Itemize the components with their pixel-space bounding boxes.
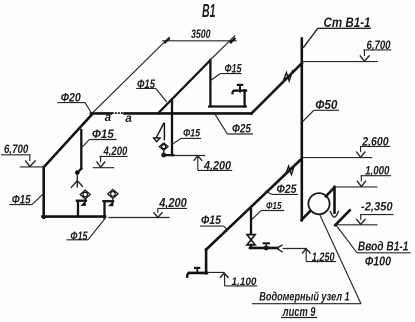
svg-text:Ф25: Ф25 (232, 121, 251, 135)
svg-text:Ф15: Ф15 (92, 127, 114, 141)
svg-text:4,200: 4,200 (203, 159, 231, 173)
svg-text:Ф15: Ф15 (266, 201, 282, 212)
svg-text:Ф100: Ф100 (365, 254, 392, 269)
svg-text:2,600: 2,600 (361, 134, 388, 148)
svg-text:Ввод В1-1: Ввод В1-1 (358, 238, 409, 253)
svg-text:Ф15: Ф15 (183, 128, 201, 140)
svg-text:Ф15: Ф15 (12, 192, 31, 206)
svg-text:4,200: 4,200 (103, 144, 128, 158)
svg-text:4,200: 4,200 (158, 196, 186, 210)
svg-text:В1: В1 (202, 1, 216, 21)
svg-text:Ф25: Ф25 (277, 184, 298, 196)
svg-text:а: а (125, 113, 132, 125)
svg-text:Ф50: Ф50 (315, 98, 337, 112)
svg-text:-2,350: -2,350 (361, 199, 393, 213)
svg-text:6,700: 6,700 (367, 38, 391, 52)
svg-text:3500: 3500 (191, 27, 211, 41)
svg-text:Водомерный узел 1: Водомерный узел 1 (259, 292, 349, 304)
svg-text:Ст В1-1: Ст В1-1 (324, 15, 371, 30)
svg-text:лист 9: лист 9 (282, 304, 316, 319)
svg-text:1,100: 1,100 (232, 276, 258, 288)
svg-text:6,700: 6,700 (4, 142, 29, 156)
svg-text:Ф20: Ф20 (61, 91, 81, 105)
svg-text:1,250: 1,250 (312, 250, 335, 264)
svg-text:а: а (105, 112, 112, 124)
svg-text:1,000: 1,000 (365, 163, 389, 177)
svg-text:Ф15: Ф15 (70, 229, 87, 243)
svg-text:Ф15: Ф15 (225, 63, 242, 75)
svg-text:Ф15: Ф15 (137, 79, 155, 91)
svg-text:Ф15: Ф15 (201, 215, 222, 227)
